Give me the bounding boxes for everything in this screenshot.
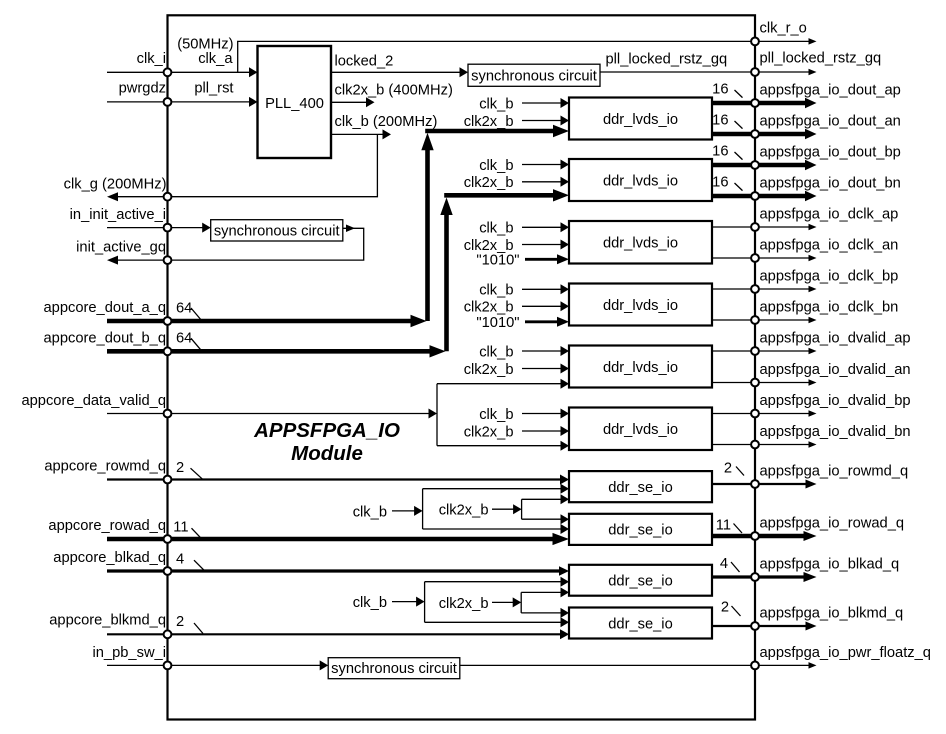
node appsfpga_io_dclk_ap <box>751 223 759 231</box>
svg-text:appsfpga_io_dout_bn: appsfpga_io_dout_bn <box>760 176 901 192</box>
svg-text:clk_b: clk_b <box>479 344 513 360</box>
node appsfpga_io_blkad_q <box>751 573 759 581</box>
wire appsfpga_io_blkad_q output stub <box>755 575 809 578</box>
svg-text:clk2x_b: clk2x_b <box>464 238 514 254</box>
svg-text:11: 11 <box>716 518 731 534</box>
svg-text:appsfpga_io_blkmd_q: appsfpga_io_blkmd_q <box>760 606 904 622</box>
svg-text:ddr_lvds_io: ddr_lvds_io <box>603 112 678 128</box>
wire appsfpga_io_dout_bp output stub <box>755 163 810 168</box>
svg-text:appcore_dout_b_q: appcore_dout_b_q <box>43 330 166 346</box>
wire clk_r_o output stub <box>755 40 812 42</box>
svg-text:in_init_active_i: in_init_active_i <box>70 207 166 223</box>
bus appcore_rowmd_q 2 <box>107 478 564 480</box>
svg-text:APPSFPGA_IO: APPSFPGA_IO <box>253 419 400 442</box>
wire appsfpga_io_blkmd_q <box>712 625 755 627</box>
node appcore_rowmd_q <box>164 476 172 484</box>
wire appsfpga_io_dout_ap output stub <box>755 101 810 106</box>
svg-text:clk_b: clk_b <box>479 283 513 299</box>
wire clk_b into ddr_lvds_io 5 <box>522 350 564 352</box>
svg-text:ddr_se_io: ddr_se_io <box>608 616 673 632</box>
svg-text:in_pb_sw_i: in_pb_sw_i <box>93 645 167 661</box>
ddr_se_io U12 <box>569 514 712 545</box>
wire clk2x_b into distribution bar <box>492 601 517 603</box>
wire appsfpga_io_dout_ap <box>712 101 755 106</box>
wire clk2x_b distribution bar <box>520 592 522 613</box>
wire data valid to ddr_lvds_io 5 <box>437 383 564 385</box>
wire clk2x_b branch lower <box>522 518 565 520</box>
svg-text:appcore_rowad_q: appcore_rowad_q <box>48 518 166 534</box>
svg-text:clk_a: clk_a <box>198 51 233 67</box>
wire appsfpga_io_dclk_bp output stub <box>755 288 812 290</box>
wire appsfpga_io_blkmd_q output stub <box>755 625 810 627</box>
node clk_g <box>164 193 172 201</box>
svg-text:2: 2 <box>176 614 184 630</box>
tick bus width appsfpga_io_blkad_q <box>731 562 740 572</box>
svg-text:appsfpga_io_pwr_floatz_q: appsfpga_io_pwr_floatz_q <box>760 645 931 661</box>
node appsfpga_io_dout_an <box>751 130 759 138</box>
svg-text:clk2x_b (400MHz): clk2x_b (400MHz) <box>335 83 453 99</box>
node appcore_dout_b_q <box>164 347 172 355</box>
wire clk2x_b into ddr_lvds_io 3 <box>522 244 564 246</box>
svg-text:clk_i: clk_i <box>137 51 166 67</box>
wire locked_2 <box>331 71 463 73</box>
node in_pb_sw_i <box>164 662 172 670</box>
bus appcore_dout_a_q into ddr_lvds_io <box>425 129 560 134</box>
svg-text:clk2x_b: clk2x_b <box>439 596 489 612</box>
node appcore_blkad_q <box>164 567 172 575</box>
tick bus width appsfpga_io_dout_bp <box>735 152 743 160</box>
wire clk2x_b into ddr_lvds_io 2 <box>522 181 564 183</box>
node appsfpga_io_dvalid_an <box>751 379 759 387</box>
tick bus width appcore_blkmd_q <box>194 623 203 634</box>
wire clk_b distribution bar <box>422 489 424 529</box>
wire clk_b 200MHz <box>331 133 386 135</box>
node appcore_data_valid_q <box>164 410 172 418</box>
wire clk2x_b into ddr_lvds_io 4 <box>522 305 564 307</box>
svg-text:ddr_lvds_io: ddr_lvds_io <box>603 298 678 314</box>
svg-text:appsfpga_io_dclk_ap: appsfpga_io_dclk_ap <box>760 207 899 223</box>
wire appsfpga_io_dclk_ap output stub <box>755 226 812 228</box>
svg-text:pll_rst: pll_rst <box>194 81 233 97</box>
wire appsfpga_io_dout_an output stub <box>755 132 810 137</box>
wire data valid fanout bar <box>436 384 438 446</box>
bus appcore_dout_b_q vertical <box>444 209 449 351</box>
svg-text:pll_locked_rstz_gq: pll_locked_rstz_gq <box>760 51 882 67</box>
node appsfpga_io_rowmd_q <box>751 480 759 488</box>
ddr_se_io U11 <box>569 471 712 502</box>
node appcore_dout_a_q <box>164 317 172 325</box>
wire appsfpga_io_dclk_bn <box>712 319 755 321</box>
wire clk_g output stub <box>113 196 167 198</box>
svg-text:appsfpga_io_dclk_an: appsfpga_io_dclk_an <box>760 238 899 254</box>
wire appsfpga_io_pwr_floatz_q output stub <box>755 664 812 666</box>
ddr_lvds_io U10 <box>569 408 712 451</box>
svg-text:appsfpga_io_blkad_q: appsfpga_io_blkad_q <box>760 557 900 573</box>
wire clk2x_b into distribution bar <box>492 508 517 510</box>
pll U1 PLL_400 <box>258 46 332 158</box>
wire init_active_gq output stub <box>113 259 167 261</box>
svg-text:clk2x_b: clk2x_b <box>464 114 514 130</box>
svg-text:clk_g (200MHz): clk_g (200MHz) <box>64 177 167 193</box>
svg-text:16: 16 <box>712 175 728 191</box>
svg-text:64: 64 <box>176 331 192 347</box>
node clk_r_o <box>751 38 759 46</box>
wire clk_i input <box>107 71 253 73</box>
svg-text:16: 16 <box>712 144 728 160</box>
svg-text:clk_b: clk_b <box>353 595 387 611</box>
svg-text:appsfpga_io_rowad_q: appsfpga_io_rowad_q <box>760 516 905 532</box>
tick bus width appsfpga_io_dout_bn <box>735 183 743 191</box>
svg-text:synchronous circuit: synchronous circuit <box>214 223 340 239</box>
node appcore_blkmd_q <box>164 630 172 638</box>
wire clk_b into ddr_lvds_io 3 <box>522 226 564 228</box>
ddr_lvds_io U8 <box>569 284 712 326</box>
ddr_lvds_io U5 <box>569 98 712 140</box>
wire appsfpga_io_dout_bn output stub <box>755 194 810 199</box>
node appsfpga_io_dclk_an <box>751 254 759 262</box>
wire clk_b distribution bar <box>424 582 426 623</box>
bus appcore_blkad_q 4 <box>107 569 564 572</box>
wire pwrgdz input <box>107 101 253 103</box>
ddr_se_io U14 <box>569 608 712 639</box>
tick bus width appsfpga_io_dout_an <box>735 121 743 129</box>
bus appcore_blkmd_q 2 <box>107 633 564 635</box>
bus appcore_dout_a_q vertical <box>425 145 430 321</box>
svg-text:ddr_lvds_io: ddr_lvds_io <box>603 236 678 252</box>
svg-text:clk_b: clk_b <box>353 504 387 520</box>
wire clk_b into ddr_lvds_io 6 <box>522 413 564 415</box>
svg-text:PLL_400: PLL_400 <box>265 96 324 112</box>
svg-text:appsfpga_io_dvalid_an: appsfpga_io_dvalid_an <box>760 362 911 378</box>
svg-text:16: 16 <box>712 113 728 129</box>
svg-text:clk_r_o: clk_r_o <box>760 21 807 37</box>
svg-text:appsfpga_io_dout_bp: appsfpga_io_dout_bp <box>760 145 901 161</box>
svg-text:appcore_blkmd_q: appcore_blkmd_q <box>49 613 166 629</box>
wire clk2x_b into ddr_lvds_io 1 <box>522 120 564 122</box>
wire clk2x_b 400MHz <box>331 101 370 103</box>
wire clk_b into ddr_lvds_io 2 <box>522 164 564 166</box>
svg-text:appsfpga_io_dvalid_bp: appsfpga_io_dvalid_bp <box>760 393 911 409</box>
svg-text:pwrgdz: pwrgdz <box>119 81 166 97</box>
wire appsfpga_io_rowmd_q <box>712 483 755 485</box>
ddr_lvds_io U9 <box>569 346 712 388</box>
module boundary APPSFPGA_IO <box>168 15 756 719</box>
svg-text:locked_2: locked_2 <box>335 54 394 70</box>
svg-text:4: 4 <box>720 556 728 572</box>
svg-text:clk_b: clk_b <box>479 407 513 423</box>
svg-text:ddr_se_io: ddr_se_io <box>608 574 673 590</box>
synchronous circuit U2 <box>468 64 600 86</box>
ddr_se_io U13 <box>569 565 712 596</box>
svg-text:clk2x_b: clk2x_b <box>464 362 514 378</box>
ddr_lvds_io U6 <box>569 159 712 201</box>
node appsfpga_io_dout_bp <box>751 161 759 169</box>
node appsfpga_io_dclk_bn <box>751 316 759 324</box>
svg-text:synchronous circuit: synchronous circuit <box>471 68 597 84</box>
node appsfpga_io_dclk_bp <box>751 285 759 293</box>
wire clk2x_b branch upper <box>522 498 565 500</box>
tick bus width b <box>191 338 202 351</box>
wire clk2x_b branch lower <box>521 612 564 614</box>
tick bus width appsfpga_io_rowmd_q <box>736 467 744 476</box>
svg-text:4: 4 <box>176 552 184 568</box>
tick bus width appsfpga_io_rowad_q <box>734 524 743 534</box>
svg-text:"1010": "1010" <box>476 253 519 269</box>
svg-text:64: 64 <box>176 300 192 316</box>
wire appsfpga_io_pwr_floatz_q <box>460 664 755 666</box>
svg-text:clk_b: clk_b <box>479 158 513 174</box>
svg-text:2: 2 <box>721 600 729 616</box>
wire clk_g route <box>168 134 378 196</box>
svg-text:16: 16 <box>712 82 728 98</box>
wire clk_r_o route to top <box>238 41 755 72</box>
wire appsfpga_io_dvalid_an output stub <box>755 382 812 384</box>
wire appsfpga_io_dvalid_bp <box>712 413 755 415</box>
ddr_lvds_io U7 <box>569 221 712 264</box>
wire constant "1010" into ddr_lvds_io 3 <box>525 258 562 261</box>
svg-text:appsfpga_io_dclk_bp: appsfpga_io_dclk_bp <box>760 269 899 285</box>
node appsfpga_io_dout_ap <box>751 99 759 107</box>
wire appsfpga_io_dout_bn <box>712 194 755 199</box>
wire clk_b branch upper <box>423 488 565 490</box>
tick bus width appcore_blkad_q <box>194 560 204 570</box>
bus appcore_dout_a_q 64 <box>107 319 418 324</box>
wire clk_b into distribution bar <box>392 510 418 512</box>
wire in_init_active_i input <box>107 227 206 229</box>
tick bus width appsfpga_io_dout_ap <box>735 90 743 98</box>
svg-text:clk2x_b: clk2x_b <box>464 175 514 191</box>
svg-text:clk2x_b: clk2x_b <box>464 424 514 440</box>
svg-text:ddr_se_io: ddr_se_io <box>608 523 673 539</box>
node appsfpga_io_rowad_q <box>751 532 759 540</box>
wire clk_b branch lower <box>425 621 565 623</box>
wire pll_locked_rstz_gq <box>600 71 755 73</box>
svg-text:appcore_rowmd_q: appcore_rowmd_q <box>44 459 166 475</box>
synchronous circuit U3 <box>211 220 343 241</box>
svg-text:2: 2 <box>176 460 184 476</box>
wire appsfpga_io_dclk_an output stub <box>755 257 812 259</box>
node pwrgdz <box>164 98 172 106</box>
node appsfpga_io_dvalid_bn <box>751 441 759 449</box>
svg-text:appsfpga_io_dout_ap: appsfpga_io_dout_ap <box>760 83 901 99</box>
node appcore_rowad_q <box>164 535 172 543</box>
wire clk_b branch lower <box>423 528 565 530</box>
svg-text:ddr_lvds_io: ddr_lvds_io <box>603 422 678 438</box>
wire pll_locked_rstz_gq output stub <box>755 71 812 73</box>
wire init_active_gq route <box>168 228 364 260</box>
wire appsfpga_io_dvalid_bp output stub <box>755 413 812 415</box>
node appsfpga_io_dvalid_bp <box>751 410 759 418</box>
wire appsfpga_io_rowmd_q output stub <box>755 483 810 485</box>
node appsfpga_io_dvalid_ap <box>751 347 759 355</box>
wire appsfpga_io_dvalid_bn output stub <box>755 444 812 446</box>
svg-text:clk_b: clk_b <box>479 221 513 237</box>
svg-text:init_active_gq: init_active_gq <box>76 240 166 256</box>
node init_active_gq <box>164 256 172 264</box>
svg-text:appsfpga_io_dvalid_bn: appsfpga_io_dvalid_bn <box>760 424 911 440</box>
tick bus width a <box>191 308 202 321</box>
wire appsfpga_io_dvalid_ap output stub <box>755 350 812 352</box>
wire appsfpga_io_dclk_bp <box>712 288 755 290</box>
svg-text:appcore_data_valid_q: appcore_data_valid_q <box>21 393 166 409</box>
svg-text:appsfpga_io_dvalid_ap: appsfpga_io_dvalid_ap <box>760 331 911 347</box>
bus appcore_dout_b_q 64 <box>107 349 437 354</box>
svg-text:appsfpga_io_rowmd_q: appsfpga_io_rowmd_q <box>760 464 909 480</box>
node pll_locked_rstz_gq <box>751 68 759 76</box>
svg-text:11: 11 <box>173 520 188 536</box>
node clk_i <box>164 68 172 76</box>
svg-text:clk_b: clk_b <box>479 96 513 112</box>
svg-text:pll_locked_rstz_gq: pll_locked_rstz_gq <box>606 52 728 68</box>
node appsfpga_io_dout_bn <box>751 192 759 200</box>
wire appsfpga_io_blkad_q <box>712 575 755 578</box>
bus appcore_dout_b_q into ddr_lvds_io <box>444 193 560 198</box>
synchronous circuit U15 <box>328 658 460 679</box>
wire clk2x_b into ddr_lvds_io 6 <box>522 430 564 432</box>
wire constant "1010" into ddr_lvds_io 4 <box>525 320 562 323</box>
svg-text:Module: Module <box>291 442 363 465</box>
wire clk_b into distribution bar <box>392 601 420 603</box>
wire clk2x_b into ddr_lvds_io 5 <box>522 368 564 370</box>
svg-text:ddr_lvds_io: ddr_lvds_io <box>603 173 678 189</box>
wire appcore_data_valid_q input <box>107 413 432 415</box>
wire appsfpga_io_dvalid_ap <box>712 350 755 352</box>
wire appsfpga_io_dclk_an <box>712 257 755 259</box>
wire clk_b into ddr_lvds_io 1 <box>522 102 564 104</box>
wire data valid to ddr_lvds_io 6 <box>437 445 564 447</box>
svg-text:ddr_lvds_io: ddr_lvds_io <box>603 360 678 376</box>
tick bus width appcore_rowad_q <box>192 528 202 538</box>
node in_init_active_i <box>164 224 172 232</box>
wire appsfpga_io_dclk_ap <box>712 226 755 228</box>
wire appsfpga_io_dout_an <box>712 132 755 137</box>
wire clk2x_b distribution bar <box>521 499 523 519</box>
wire in_pb_sw_i input <box>107 664 324 666</box>
svg-text:"1010": "1010" <box>476 315 519 331</box>
tick bus width appcore_rowmd_q <box>191 468 203 479</box>
wire appsfpga_io_dvalid_an <box>712 382 755 384</box>
svg-text:appcore_blkad_q: appcore_blkad_q <box>53 550 166 566</box>
wire appsfpga_io_rowad_q output stub <box>755 534 809 539</box>
svg-text:clk2x_b: clk2x_b <box>439 503 489 519</box>
svg-text:synchronous circuit: synchronous circuit <box>331 661 457 677</box>
tick bus width appsfpga_io_blkmd_q <box>732 606 741 616</box>
wire clk2x_b branch upper <box>521 591 564 593</box>
wire appsfpga_io_rowad_q <box>712 534 755 539</box>
svg-text:2: 2 <box>724 461 732 477</box>
wire appsfpga_io_dvalid_bn <box>712 444 755 446</box>
wire appsfpga_io_dclk_bn output stub <box>755 319 812 321</box>
svg-text:ddr_se_io: ddr_se_io <box>608 480 673 496</box>
node appsfpga_io_pwr_floatz_q <box>751 662 759 670</box>
svg-text:clk_b (200MHz): clk_b (200MHz) <box>335 114 438 130</box>
svg-text:appsfpga_io_dclk_bn: appsfpga_io_dclk_bn <box>760 300 899 316</box>
wire clk_b into ddr_lvds_io 4 <box>522 288 564 290</box>
svg-text:appsfpga_io_dout_an: appsfpga_io_dout_an <box>760 114 901 130</box>
wire appsfpga_io_dout_bp <box>712 163 755 168</box>
wire clk_b branch upper <box>425 581 565 583</box>
bus appcore_rowad_q 11 <box>107 537 560 542</box>
svg-text:appcore_dout_a_q: appcore_dout_a_q <box>43 300 166 316</box>
svg-text:clk2x_b: clk2x_b <box>464 300 514 316</box>
node appsfpga_io_blkmd_q <box>751 622 759 630</box>
